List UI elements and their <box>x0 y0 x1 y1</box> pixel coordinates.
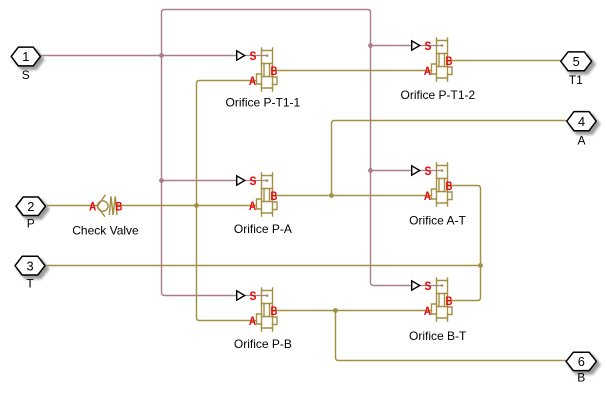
svg-text:2: 2 <box>27 199 34 214</box>
svg-text:3: 3 <box>26 258 33 273</box>
orifice P-T1-2 <box>412 38 453 81</box>
port 3 T <box>15 256 48 278</box>
wire Orifice B-T B up to T node <box>448 266 481 301</box>
orifice P-B <box>237 288 278 331</box>
svg-text:4: 4 <box>578 114 585 129</box>
svg-text:1: 1 <box>22 49 29 64</box>
wire Orifice P-A B to Orifice A-T A <box>273 195 432 197</box>
svg-text:Check Valve: Check Valve <box>72 224 139 238</box>
node S junction to Orifice A-T <box>368 168 373 173</box>
wire port2 P to Check Valve A <box>46 205 98 207</box>
node P junction <box>194 203 199 208</box>
wire P net vertical to Orifice P-T1-1 A and Orifice P-B A <box>197 81 257 321</box>
svg-text:Orifice P-T1-1: Orifice P-T1-1 <box>226 96 301 110</box>
node A junction <box>329 193 334 198</box>
svg-text:P: P <box>27 217 35 231</box>
orifice A-T <box>412 163 453 206</box>
port 1 S <box>11 47 43 69</box>
svg-text:Orifice B-T: Orifice B-T <box>409 329 467 343</box>
wire S branch to Orifice P-A S <box>162 180 237 182</box>
orifice B-T <box>412 278 453 321</box>
check valve CV <box>97 195 117 217</box>
svg-text:5: 5 <box>573 54 580 69</box>
svg-text:A: A <box>89 200 96 214</box>
svg-text:T: T <box>26 277 34 291</box>
node S junction to Orifice P-T1-2 <box>368 43 373 48</box>
node B junction <box>333 308 338 313</box>
orifice P-A <box>237 173 278 216</box>
wire Check Valve B to Orifice P-A A <box>116 205 257 207</box>
wire port3 T to T node <box>45 265 481 267</box>
port 6 B <box>566 352 599 373</box>
orifice P-T1-1 <box>237 48 278 91</box>
wire S net left vertical down to Orifice P-B S <box>162 56 237 296</box>
svg-text:Orifice P-B: Orifice P-B <box>234 337 292 351</box>
svg-text:6: 6 <box>578 354 585 369</box>
wire Orifice P-B B to Orifice B-T A <box>273 310 432 312</box>
wire S branch to Orifice P-T1-2 S <box>371 45 412 47</box>
wire Orifice P-T1-1 B to Orifice P-T1-2 A <box>273 70 432 72</box>
svg-text:Orifice P-A: Orifice P-A <box>234 222 292 236</box>
wire A net branch up to port4 <box>332 121 567 196</box>
node S junction at port1 wire <box>159 53 164 58</box>
wire B net branch down to port6 <box>336 311 567 361</box>
svg-text:B: B <box>116 200 123 214</box>
port 5 T1 <box>561 52 595 74</box>
wire S net top loop over to Orifice B-T S <box>162 10 412 286</box>
wire port1 S to Orifice P-T1-1 S input <box>40 55 236 57</box>
svg-text:Orifice P-T1-2: Orifice P-T1-2 <box>401 88 476 102</box>
port 4 A <box>567 112 599 134</box>
svg-text:T1: T1 <box>569 73 583 87</box>
port 2 P <box>16 197 49 219</box>
svg-text:Orifice A-T: Orifice A-T <box>409 214 466 228</box>
svg-text:S: S <box>22 68 30 82</box>
wire Orifice P-T1-2 B to port5 T1 <box>448 60 561 62</box>
svg-text:A: A <box>577 133 585 147</box>
wire Orifice A-T B down to T node <box>448 186 481 266</box>
node S junction to Orifice P-A <box>159 178 164 183</box>
node T junction <box>478 263 483 268</box>
svg-text:B: B <box>577 371 585 385</box>
wire S branch to Orifice A-T S <box>371 170 412 172</box>
